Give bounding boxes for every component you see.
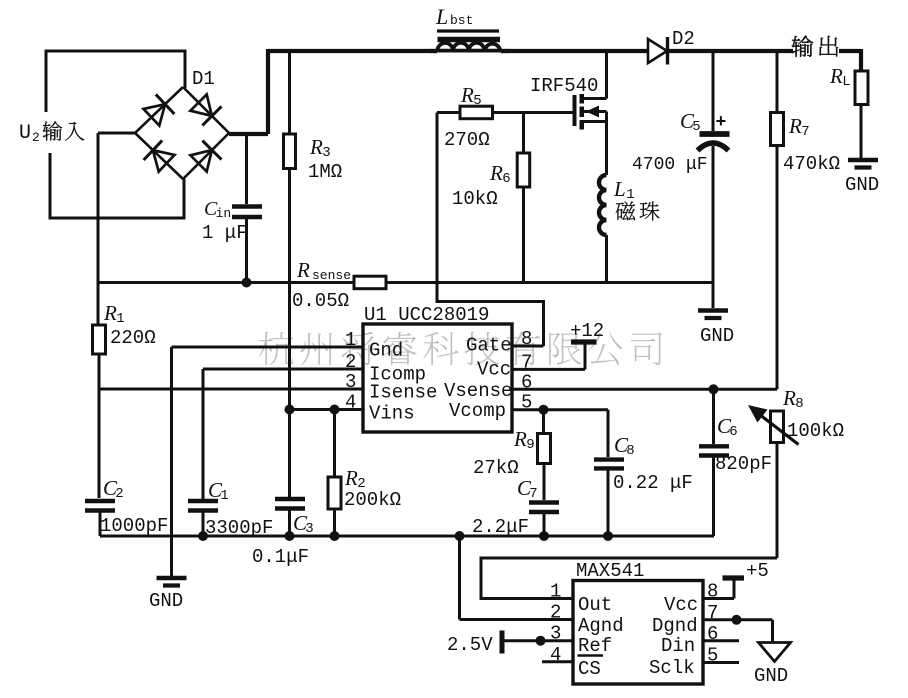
svg-text:Vcc: Vcc [477,359,511,381]
svg-text:1: 1 [116,311,124,327]
svg-text:IRF540: IRF540 [530,75,598,97]
svg-text:3: 3 [550,623,561,645]
svg-text:R: R [513,427,527,451]
svg-text:2: 2 [115,486,123,502]
svg-text:R: R [829,64,843,88]
svg-text:U: U [19,122,31,145]
svg-text:8: 8 [521,328,532,350]
svg-text:R: R [460,83,474,107]
svg-text:Agnd: Agnd [578,615,624,637]
svg-text:R: R [296,258,310,282]
svg-text:6: 6 [729,424,737,440]
svg-text:100kΩ: 100kΩ [787,420,844,442]
svg-text:MAX541: MAX541 [576,560,644,582]
svg-text:R: R [782,386,796,410]
svg-text:4700 μF: 4700 μF [632,155,708,175]
svg-text:1000pF: 1000pF [100,515,168,537]
svg-text:D1: D1 [192,68,215,90]
svg-text:7: 7 [529,486,537,502]
svg-text:1MΩ: 1MΩ [308,161,342,183]
svg-text:2: 2 [32,130,40,145]
svg-text:D2: D2 [672,28,695,50]
svg-text:GND: GND [754,665,788,687]
svg-text:sense: sense [312,268,351,283]
svg-text:bst: bst [450,13,473,28]
svg-text:1: 1 [345,329,356,351]
svg-text:Isense: Isense [369,382,437,404]
svg-text:2: 2 [345,351,356,373]
svg-text:8: 8 [707,581,718,603]
svg-text:200kΩ: 200kΩ [344,489,401,511]
svg-text:2: 2 [550,602,561,624]
svg-text:7: 7 [707,602,718,624]
svg-text:L: L [842,74,850,90]
svg-text:4: 4 [550,644,561,666]
svg-text:Ref: Ref [578,635,612,657]
svg-text:R: R [103,301,117,325]
svg-text:R: R [309,135,323,159]
svg-text:7: 7 [801,124,809,140]
svg-text:Sclk: Sclk [649,657,695,679]
svg-text:5: 5 [473,93,481,109]
svg-text:2.5V: 2.5V [447,634,493,656]
svg-text:8: 8 [626,443,634,459]
svg-text:1: 1 [220,488,228,504]
svg-text:9: 9 [526,437,534,453]
svg-text:6: 6 [502,171,510,187]
svg-text:Dgnd: Dgnd [652,615,698,637]
svg-text:0.05Ω: 0.05Ω [292,290,349,312]
svg-text:1 μF: 1 μF [202,222,248,244]
svg-text:L: L [435,4,448,29]
svg-text:Out: Out [578,594,612,616]
svg-text:Gate: Gate [466,335,512,357]
svg-text:2.2μF: 2.2μF [472,516,529,538]
svg-text:0.1μF: 0.1μF [252,546,309,568]
svg-text:Din: Din [661,635,695,657]
svg-text:5: 5 [707,645,718,667]
svg-text:GND: GND [149,590,183,612]
svg-text:3: 3 [322,145,330,161]
svg-text:R: R [344,466,358,490]
svg-text:Vcomp: Vcomp [449,400,506,422]
svg-text:Vcc: Vcc [664,594,698,616]
svg-text:7: 7 [521,351,532,373]
svg-text:5: 5 [692,119,700,135]
svg-text:10kΩ: 10kΩ [452,188,498,210]
svg-text:GND: GND [700,325,734,347]
svg-text:R: R [489,161,503,185]
svg-text:Gnd: Gnd [369,340,403,362]
svg-text:6: 6 [521,371,532,393]
svg-text:in: in [216,206,232,221]
svg-text:27kΩ: 27kΩ [473,457,519,479]
svg-text:4: 4 [345,392,356,414]
svg-text:CS: CS [578,658,601,680]
svg-text:+12: +12 [570,320,604,342]
svg-text:6: 6 [707,623,718,645]
svg-text:GND: GND [845,174,879,196]
svg-text:R: R [788,114,802,138]
svg-text:Vsense: Vsense [444,380,512,402]
svg-text:+5: +5 [746,560,769,582]
svg-text:0.22 μF: 0.22 μF [613,472,693,494]
svg-text:470kΩ: 470kΩ [783,153,840,175]
svg-text:1: 1 [626,187,634,203]
svg-text:270Ω: 270Ω [444,129,490,151]
svg-text:+: + [716,113,727,133]
svg-text:1: 1 [550,581,561,603]
svg-text:820pF: 820pF [715,453,772,475]
svg-text:Vins: Vins [369,403,415,425]
svg-text:5: 5 [521,392,532,414]
svg-text:3: 3 [345,371,356,393]
svg-text:220Ω: 220Ω [110,327,156,349]
svg-text:8: 8 [795,396,803,412]
svg-text:L: L [613,177,626,201]
